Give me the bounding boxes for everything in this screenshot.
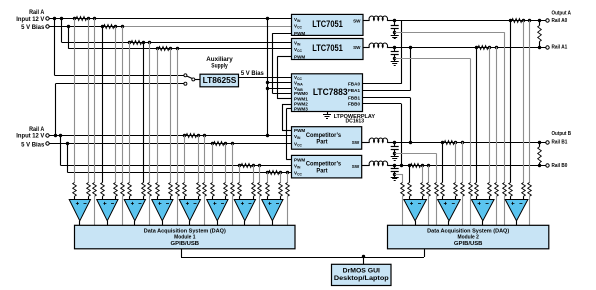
wire tap into DAQ channel 5	[204, 196, 206, 225]
wire sense + channel 8	[267, 173, 269, 183]
svg-text:5 V Bias: 5 V Bias	[241, 70, 264, 77]
wire sense + output channel 3	[476, 47, 478, 183]
wire ground sense output channel 2	[395, 153, 437, 155]
svg-text:PWM: PWM	[294, 55, 305, 60]
terminal Input 12 V (Rail A top)	[46, 17, 49, 20]
svg-text:Module 1: Module 1	[174, 235, 195, 241]
junction dots on 12 V rail	[53, 17, 56, 20]
wire lower 12 V tap to selector switch	[55, 84, 57, 136]
resistor output sense rail	[444, 141, 454, 145]
wire amp output channel 2	[107, 221, 109, 226]
node dots rail A0	[393, 19, 396, 22]
resistor filter tap channel 4	[176, 183, 180, 197]
wire amp output channel 5	[189, 221, 191, 226]
wire GUI drop	[363, 257, 365, 264]
node dots rail B0	[393, 164, 396, 167]
svg-text:Part: Part	[316, 139, 328, 146]
wire voltage tap channel 2	[122, 27, 124, 183]
wire amp output into DAQ2 channel 2	[448, 221, 450, 226]
junction dots row Competitor-2 VIN	[238, 164, 241, 167]
inductor output rail A0	[369, 16, 387, 20]
wire amp output into DAQ2 channel 1	[415, 221, 417, 226]
svg-text:Module 2: Module 2	[458, 235, 479, 241]
resistor filter gnd output channel 3	[469, 183, 473, 197]
svg-text:PWM: PWM	[294, 128, 305, 133]
wire sense + channel 6	[212, 144, 214, 183]
svg-text:5 V Bias: 5 V Bias	[21, 142, 45, 148]
svg-text:Input 12 V: Input 12 V	[16, 17, 44, 23]
resistor filter - channel 4	[169, 183, 173, 197]
wire into amp channel 7	[239, 196, 241, 199]
resistor filter tap channel 7	[258, 183, 262, 197]
switch contact upper	[184, 74, 187, 77]
wire 12 V rail to LTC7051-1 VIN	[49, 18, 291, 20]
wire SW node rail B1	[362, 142, 370, 144]
svg-text:SW: SW	[353, 19, 361, 24]
resistor filter - output channel 2	[454, 183, 458, 197]
svg-text:DrMOS GUI: DrMOS GUI	[343, 268, 381, 275]
instrument DAQ module 2	[388, 225, 549, 249]
wire tap into DAQ2 channel 4	[529, 196, 531, 225]
op-amp output sense channel 4	[505, 200, 528, 221]
wire voltage tap output channel 1	[428, 166, 430, 183]
wire into amp channel 5	[184, 196, 186, 199]
wire sense - channel 1	[88, 19, 90, 183]
inductor output rail B0	[369, 161, 387, 165]
resistor filter + channel 4	[156, 183, 160, 197]
wire tap into DAQ channel 2	[122, 196, 124, 225]
wire voltage tap output channel 4	[529, 21, 531, 183]
resistor filter tap channel 3	[148, 183, 152, 197]
junction dots on 5 V rail	[67, 25, 70, 28]
wire PWM3 route LTC7883 to Competitor-2	[286, 108, 291, 110]
wire gnd sense into DAQ2 channel 2	[436, 196, 438, 225]
wire ground sense output channel 1	[395, 174, 403, 176]
resistor filter tap output channel 1	[427, 183, 431, 197]
wire FBB0 feedback	[401, 104, 403, 166]
wire sense - channel 4	[170, 49, 172, 183]
svg-text:FBB0: FBB0	[348, 101, 360, 106]
resistor filter - output channel 3	[488, 183, 492, 197]
svg-text:Output A: Output A	[552, 11, 572, 17]
op-amp output sense channel 1	[404, 200, 427, 221]
wire sense + output channel 4	[510, 21, 512, 183]
ground output cap rail B0	[391, 177, 399, 179]
resistor filter tap output channel 4	[528, 183, 532, 197]
svg-text:FBB1: FBB1	[348, 95, 360, 100]
wire into amp output channel 3	[476, 196, 478, 199]
wire into amp output channel 4	[510, 196, 512, 199]
wire FBB1 feedback	[410, 98, 412, 142]
junction dots row Competitor-2 VCC	[266, 171, 269, 174]
resistor filter + output channel 1	[408, 183, 412, 197]
resistor lower 12 V sense (ch7)	[241, 164, 252, 168]
resistor 12 V sense (ch3)	[131, 41, 142, 45]
wire voltage tap channel 3	[149, 42, 151, 182]
terminal Rail A0	[546, 19, 549, 22]
svg-text:Rail A: Rail A	[29, 127, 45, 133]
wire sense - channel 6	[225, 144, 227, 183]
inductor output rail A1	[369, 43, 387, 47]
wire 12 V tap to selector switch	[54, 19, 56, 76]
junction dot GUI bus	[362, 255, 365, 258]
wire amp output into DAQ2 channel 3	[482, 221, 484, 226]
wire voltage tap channel 4	[177, 49, 179, 183]
svg-text:PWM3: PWM3	[294, 106, 308, 111]
wire tap into DAQ2 channel 2	[462, 196, 464, 225]
wire gnd sense into DAQ2 channel 1	[402, 196, 404, 225]
resistor filter + output channel 4	[509, 183, 513, 197]
wire sense - output channel 3	[489, 47, 491, 183]
wire tap into DAQ channel 4	[177, 196, 179, 225]
wire LT8625S 5 V bias output to LTC7883 VCC	[239, 77, 292, 79]
wire lower 5 V branch to Competitor-2 VCC	[67, 144, 69, 173]
junction dots lower 12 V rail	[54, 134, 57, 137]
resistor 5 V sense (ch4)	[159, 47, 170, 51]
terminal 5 V Bias (Rail A top)	[46, 25, 49, 28]
svg-text:Supply: Supply	[211, 63, 228, 70]
junction dots output sense	[408, 164, 411, 167]
resistor filter + output channel 2	[441, 183, 445, 197]
resistor filter - channel 8	[279, 183, 283, 197]
op-amp sense channel 1	[69, 200, 90, 221]
resistor output sense rail	[478, 46, 488, 50]
resistor filter tap channel 2	[121, 183, 125, 197]
wire sense + channel 3	[129, 42, 131, 182]
wire amp output channel 8	[272, 221, 274, 226]
wire PWM2 route LTC7883 to Competitor-1	[282, 104, 292, 106]
resistor filter gnd output channel 4	[503, 183, 507, 197]
svg-text:LTC7051: LTC7051	[312, 42, 343, 53]
svg-text:GPIB/USB: GPIB/USB	[454, 241, 483, 247]
junction dots row 4	[156, 47, 159, 50]
resistor filter - channel 2	[114, 183, 118, 197]
wire sense - channel 7	[253, 166, 255, 183]
wire sense - output channel 1	[422, 166, 424, 183]
svg-text:Rail B0: Rail B0	[552, 163, 568, 169]
wire into amp channel 4	[157, 196, 159, 199]
resistor filter - channel 6	[224, 183, 228, 197]
op-amp sense channel 2	[97, 200, 118, 221]
svg-text:PWM: PWM	[294, 157, 305, 162]
wire ground sense output channel 4	[395, 32, 504, 34]
wire voltage tap channel 8	[287, 173, 289, 183]
wire lower 12 V rail to Competitor-1 VIN	[49, 135, 291, 137]
wire sense + channel 7	[239, 166, 241, 183]
resistor filter - channel 5	[197, 183, 201, 197]
svg-text:LTC7051: LTC7051	[312, 18, 343, 29]
resistor filter tap channel 1	[93, 183, 97, 197]
resistor filter tap output channel 3	[495, 183, 499, 197]
capacitor output rail B1	[394, 142, 396, 147]
ground output cap rail A0	[394, 32, 396, 35]
wire tap into DAQ channel 6	[232, 196, 234, 225]
wire lower 12 V branch to Competitor-2 VIN	[60, 136, 62, 166]
wire sense + channel 4	[157, 49, 159, 183]
ground output cap rail A1	[394, 58, 396, 61]
op-amp output sense channel 2	[438, 200, 461, 221]
wire voltage tap output channel 3	[496, 47, 498, 183]
op-amp sense channel 6	[207, 200, 228, 221]
wire 12 V tie rail-to-rail with VINA VINB taps	[267, 19, 269, 136]
inductor output rail B1	[369, 138, 387, 142]
wire sense + channel 2	[102, 27, 104, 183]
wire sense - channel 8	[280, 173, 282, 183]
wire 5 V branch down to row 4	[68, 27, 70, 49]
wire sense - channel 3	[143, 42, 145, 182]
junction dots VINA VINB taps	[266, 81, 269, 84]
wire tap into DAQ channel 7	[259, 196, 261, 225]
wire FBA0 feedback	[401, 21, 403, 84]
switch pole	[192, 78, 195, 81]
svg-text:Data Acquisition System (DAQ): Data Acquisition System (DAQ)	[144, 228, 226, 234]
wire amp output channel 7	[244, 221, 246, 226]
resistor filter + channel 6	[211, 183, 215, 197]
wire voltage tap channel 7	[259, 166, 261, 183]
junction dots lower 5 V rail	[66, 142, 69, 145]
wire tap into DAQ channel 3	[149, 196, 151, 225]
svg-text:Rail A: Rail A	[29, 10, 45, 16]
wire voltage tap channel 6	[232, 144, 234, 183]
svg-text:PWM0: PWM0	[294, 91, 308, 96]
controller U4 LTC7883	[292, 74, 363, 112]
wire sense + channel 5	[184, 136, 186, 183]
svg-text:Output B: Output B	[552, 131, 572, 137]
resistor divider rail A0-A1	[539, 21, 541, 26]
svg-text:SW: SW	[352, 140, 360, 145]
svg-text:FBA0: FBA0	[348, 81, 360, 86]
junction dots output sense	[509, 19, 512, 22]
capacitor output rail B0	[394, 166, 396, 169]
instrument DAQ module 1	[75, 225, 296, 249]
wire amp output channel 3	[134, 221, 136, 226]
wire sense - channel 2	[115, 27, 117, 183]
wire tap into DAQ channel 1	[94, 196, 96, 225]
resistor output sense rail	[411, 164, 421, 168]
junction dots output sense	[475, 46, 478, 49]
resistor divider rail B1-B0	[539, 142, 541, 147]
wire 12 V branch down to row 3	[61, 19, 63, 42]
wire into amp output channel 2	[442, 196, 444, 199]
resistor filter + channel 1	[73, 183, 77, 197]
wire into amp channel 1	[74, 196, 76, 199]
wire gnd sense into DAQ2 channel 3	[470, 196, 472, 225]
wire sense - channel 5	[198, 136, 200, 183]
svg-text:PWM: PWM	[294, 31, 305, 36]
svg-text:SW: SW	[353, 45, 361, 50]
wire amp output channel 4	[162, 221, 164, 226]
wire into amp channel 3	[129, 196, 131, 199]
wire into amp channel 6	[212, 196, 214, 199]
wire SW node rail A0	[363, 20, 370, 22]
wire voltage tap channel 1	[94, 19, 96, 183]
resistor filter + channel 7	[238, 183, 242, 197]
wire sense - output channel 2	[455, 142, 457, 183]
junction dots output sense	[441, 141, 444, 144]
op-amp sense channel 3	[124, 200, 145, 221]
resistor output sense rail	[512, 19, 522, 23]
switch blade	[187, 76, 193, 79]
svg-text:GPIB/USB: GPIB/USB	[171, 241, 200, 247]
wire tap into DAQ channel 8	[287, 196, 289, 225]
resistor filter tap channel 6	[231, 183, 235, 197]
resistor lower 12 V sense (ch5)	[186, 134, 197, 138]
capacitor output rail A0	[394, 21, 396, 26]
svg-text:Part: Part	[316, 167, 328, 174]
op-amp output sense channel 3	[471, 200, 494, 221]
svg-text:Input 12 V: Input 12 V	[16, 134, 44, 140]
junction dots row 3	[128, 41, 131, 44]
svg-text:LT8625S: LT8625S	[203, 75, 237, 85]
wire switch pole to LT8625S	[195, 79, 200, 81]
svg-text:5 V Bias: 5 V Bias	[21, 25, 45, 31]
resistor lower 5 V sense (ch6)	[214, 142, 225, 146]
op-amp sense channel 4	[152, 200, 173, 221]
wire PWM1 route LTC7883 to LTC7051-2	[277, 56, 291, 58]
resistor filter + channel 2	[101, 183, 105, 197]
wire FBA1 feedback	[410, 47, 412, 91]
wire tap into DAQ2 channel 3	[496, 196, 498, 225]
ground under LTC7883	[327, 112, 329, 115]
resistor filter - channel 7	[252, 183, 256, 197]
wire amp output channel 6	[217, 221, 219, 226]
ground output cap rail B1	[391, 156, 399, 158]
resistor 12 V sense (ch1)	[76, 17, 87, 21]
wire into amp channel 8	[267, 196, 269, 199]
wire gnd sense into DAQ2 channel 4	[504, 196, 506, 225]
resistor filter - output channel 1	[421, 183, 425, 197]
node dots rail A1	[393, 46, 396, 49]
resistor filter tap channel 5	[203, 183, 207, 197]
wire sense - output channel 4	[523, 21, 525, 183]
op-amp sense channel 8	[262, 200, 283, 221]
wire ground sense output channel 3	[395, 58, 471, 60]
capacitor output rail A1	[394, 47, 396, 52]
resistor filter + channel 5	[183, 183, 187, 197]
wire PWM0 route LTC7883 to LTC7051-1	[273, 33, 292, 35]
wire voltage tap output channel 2	[462, 142, 464, 183]
svg-text:Rail A1: Rail A1	[552, 45, 568, 51]
wire sense + output channel 2	[442, 142, 444, 183]
wire SW node rail A1	[363, 47, 370, 49]
svg-text:LTC7883: LTC7883	[313, 86, 348, 97]
resistor filter tap output channel 2	[461, 183, 465, 197]
wire lower 5 V rail to Competitor-1 VCC	[49, 143, 291, 145]
resistor filter tap channel 8	[286, 183, 290, 197]
svg-text:DC1613: DC1613	[346, 119, 365, 125]
op-amp sense channel 7	[234, 200, 255, 221]
resistor filter + output channel 3	[475, 183, 479, 197]
resistor filter + channel 3	[128, 183, 132, 197]
node dots rail B1	[393, 141, 396, 144]
wire SW node rail B0	[362, 165, 370, 167]
terminal Rail B1	[546, 141, 549, 144]
terminal Rail A1	[546, 46, 549, 49]
resistor filter gnd output channel 2	[435, 183, 439, 197]
wire tap into DAQ2 channel 1	[428, 196, 430, 225]
terminal 5 V Bias (Rail A bottom)	[46, 142, 49, 145]
svg-text:Data Acquisition System (DAQ): Data Acquisition System (DAQ)	[427, 228, 509, 234]
driver U3 LTC7051 (rail A1)	[292, 39, 364, 60]
wire sense + output channel 1	[409, 166, 411, 183]
svg-text:Rail B1: Rail B1	[552, 140, 568, 146]
resistor filter - channel 3	[142, 183, 146, 197]
regulator U1 LT8625S	[200, 74, 239, 87]
terminal Rail B0	[546, 164, 549, 167]
svg-text:FBA1: FBA1	[348, 88, 360, 93]
resistor filter gnd output channel 1	[401, 183, 405, 197]
resistor filter - channel 1	[87, 183, 91, 197]
resistor filter - output channel 4	[522, 183, 526, 197]
driver U2 LTC7051 (rail A0)	[292, 14, 364, 35]
svg-text:Desktop/Laptop: Desktop/Laptop	[334, 275, 389, 282]
op-amp sense channel 5	[179, 200, 200, 221]
wire amp output channel 1	[79, 221, 81, 226]
wire into amp channel 2	[102, 196, 104, 199]
wire DAQ1 to GUI bus	[181, 249, 183, 257]
wire into amp output channel 1	[409, 196, 411, 199]
switch contact lower	[184, 82, 187, 85]
wire amp output into DAQ2 channel 4	[516, 221, 518, 226]
wire 5 V bias rail to LTC7051-1 VCC (gray part)	[122, 26, 291, 28]
wire voltage tap channel 5	[204, 136, 206, 183]
svg-text:SW: SW	[352, 164, 360, 169]
svg-text:Rail A0: Rail A0	[552, 18, 568, 24]
driver U6 Competitor's Part (rail B0)	[292, 155, 362, 178]
wire sense + channel 1	[74, 19, 76, 183]
resistor 5 V sense (ch2)	[104, 25, 115, 29]
wire 5 V bias rail (black part)	[49, 26, 122, 28]
terminal Input 12 V (Rail A bottom)	[46, 134, 49, 137]
resistor lower 5 V sense (ch8)	[269, 171, 280, 175]
computer DrMOS GUI	[332, 264, 392, 285]
driver U5 Competitor's Part (rail B1)	[292, 127, 362, 150]
resistor filter + channel 8	[266, 183, 270, 197]
